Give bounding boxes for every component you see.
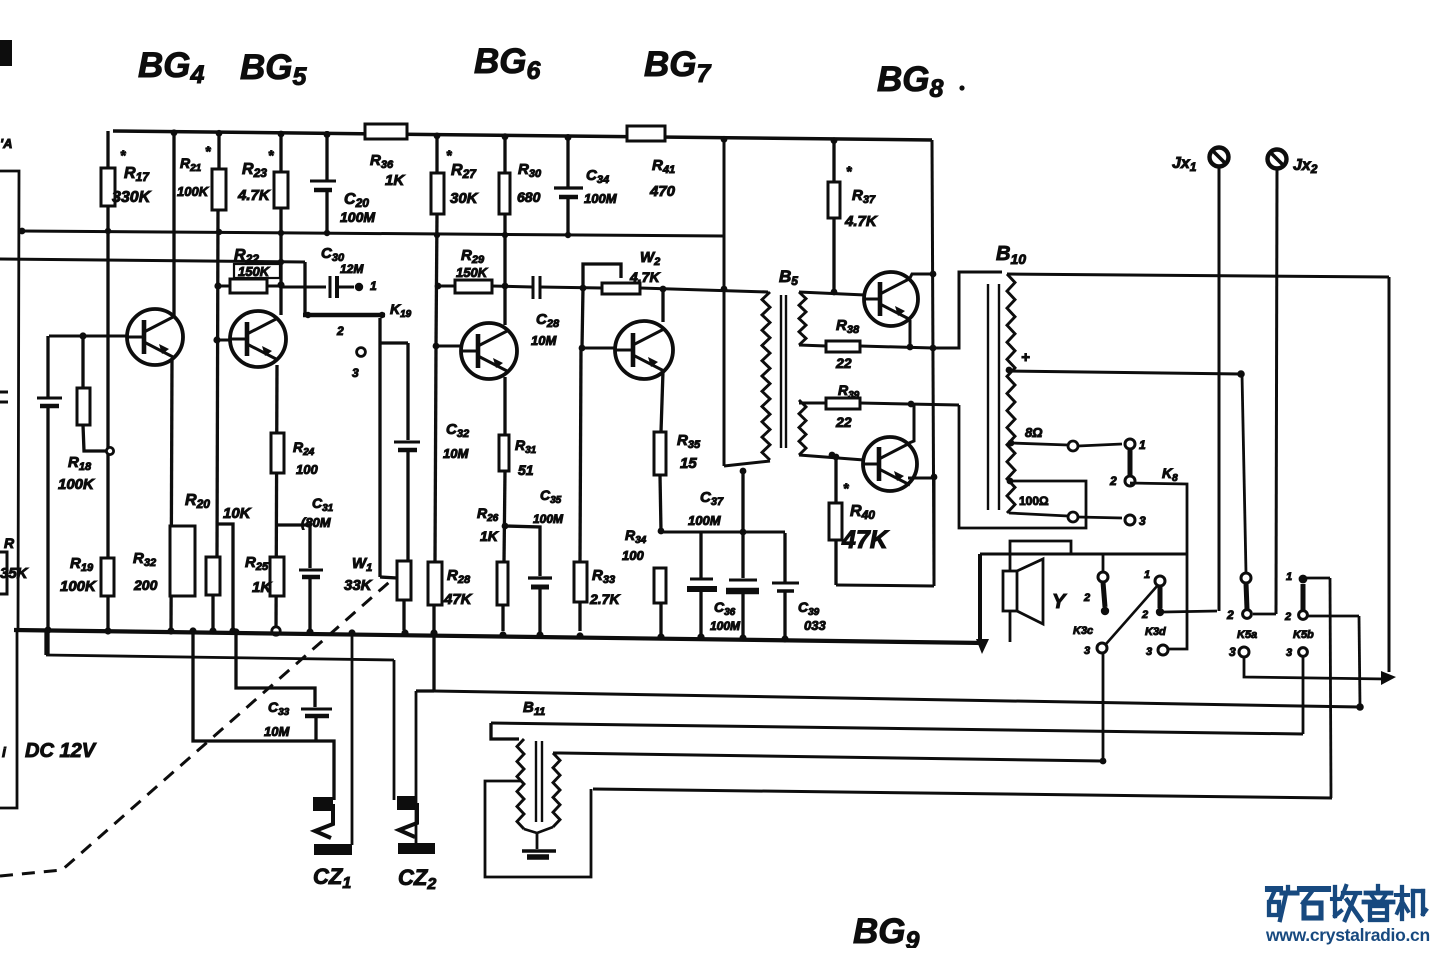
svg-text:100M: 100M bbox=[533, 512, 564, 526]
svg-text:1K: 1K bbox=[252, 579, 272, 596]
svg-text:1K: 1K bbox=[480, 528, 499, 544]
svg-text:150K: 150K bbox=[456, 265, 489, 280]
svg-text:3: 3 bbox=[1146, 646, 1152, 658]
svg-text:2: 2 bbox=[1141, 609, 1148, 621]
svg-text:47K: 47K bbox=[443, 591, 473, 608]
svg-text:K5a: K5a bbox=[1237, 629, 1257, 641]
svg-text:033: 033 bbox=[804, 618, 826, 633]
svg-text:150K: 150K bbox=[238, 264, 271, 279]
svg-text:100: 100 bbox=[296, 462, 318, 477]
svg-text:30K: 30K bbox=[450, 190, 479, 207]
svg-text:35K: 35K bbox=[0, 565, 29, 582]
svg-text:47K: 47K bbox=[841, 526, 890, 554]
svg-text:10M: 10M bbox=[264, 724, 290, 739]
svg-text:51: 51 bbox=[518, 462, 534, 478]
svg-text:3: 3 bbox=[352, 366, 359, 380]
svg-text:1: 1 bbox=[370, 279, 377, 293]
svg-text:12M: 12M bbox=[340, 262, 364, 276]
svg-text:1: 1 bbox=[1286, 571, 1292, 583]
svg-text:(80M: (80M bbox=[301, 515, 332, 530]
svg-text:33K: 33K bbox=[344, 577, 373, 594]
svg-text:1K: 1K bbox=[385, 172, 405, 189]
svg-text:4.7K: 4.7K bbox=[237, 187, 271, 204]
svg-text:2: 2 bbox=[1284, 611, 1291, 623]
svg-text:3: 3 bbox=[1229, 645, 1236, 659]
svg-text:K5b: K5b bbox=[1293, 629, 1314, 641]
svg-text:1: 1 bbox=[1139, 438, 1146, 452]
svg-text:R: R bbox=[4, 535, 15, 551]
svg-text:100M: 100M bbox=[710, 619, 741, 633]
svg-text:*: * bbox=[268, 147, 274, 163]
svg-text:100M: 100M bbox=[584, 191, 618, 206]
svg-text:2: 2 bbox=[1226, 608, 1234, 622]
svg-text:100K: 100K bbox=[60, 578, 97, 595]
svg-text:2.7K: 2.7K bbox=[589, 591, 620, 607]
svg-text:200: 200 bbox=[133, 577, 158, 593]
svg-text:10M: 10M bbox=[531, 333, 557, 348]
svg-text:100Ω: 100Ω bbox=[1019, 494, 1049, 508]
svg-text:8Ω: 8Ω bbox=[1025, 425, 1042, 440]
svg-text:*: * bbox=[446, 147, 452, 163]
svg-text:K3d: K3d bbox=[1145, 626, 1166, 638]
svg-text:*: * bbox=[205, 143, 211, 159]
svg-text:100M: 100M bbox=[340, 209, 375, 225]
svg-text:www.crystalradio.cn: www.crystalradio.cn bbox=[1265, 925, 1430, 945]
svg-text:*: * bbox=[846, 163, 852, 179]
svg-text:3: 3 bbox=[1139, 514, 1146, 528]
svg-text:10M: 10M bbox=[443, 446, 469, 461]
svg-text:2: 2 bbox=[1083, 592, 1090, 604]
svg-text:330K: 330K bbox=[112, 189, 152, 206]
svg-text:15: 15 bbox=[680, 455, 697, 472]
svg-text:22: 22 bbox=[835, 355, 852, 371]
svg-text:+: + bbox=[1021, 349, 1030, 366]
svg-text:100M: 100M bbox=[688, 513, 722, 528]
svg-text:10K: 10K bbox=[223, 505, 252, 522]
svg-text:*: * bbox=[843, 480, 849, 496]
svg-text:4.7K: 4.7K bbox=[629, 269, 660, 285]
svg-text:680: 680 bbox=[517, 189, 541, 205]
svg-text:'A: 'A bbox=[0, 136, 12, 151]
svg-text:Y: Y bbox=[1052, 591, 1067, 613]
svg-text:4.7K: 4.7K bbox=[844, 213, 878, 230]
svg-text:100K: 100K bbox=[58, 476, 95, 493]
svg-text:470: 470 bbox=[649, 183, 676, 200]
svg-text:*: * bbox=[120, 147, 126, 163]
svg-text:DC 12V: DC 12V bbox=[25, 740, 97, 762]
svg-text:K3c: K3c bbox=[1073, 625, 1093, 637]
svg-text:100K: 100K bbox=[177, 184, 210, 199]
svg-text:3: 3 bbox=[1084, 645, 1090, 657]
svg-text:3: 3 bbox=[1286, 647, 1292, 659]
svg-text:22: 22 bbox=[835, 414, 852, 430]
svg-text:100: 100 bbox=[622, 548, 644, 563]
svg-text:2: 2 bbox=[336, 324, 344, 338]
svg-text:1: 1 bbox=[1144, 569, 1150, 581]
svg-text:2: 2 bbox=[1109, 474, 1117, 488]
